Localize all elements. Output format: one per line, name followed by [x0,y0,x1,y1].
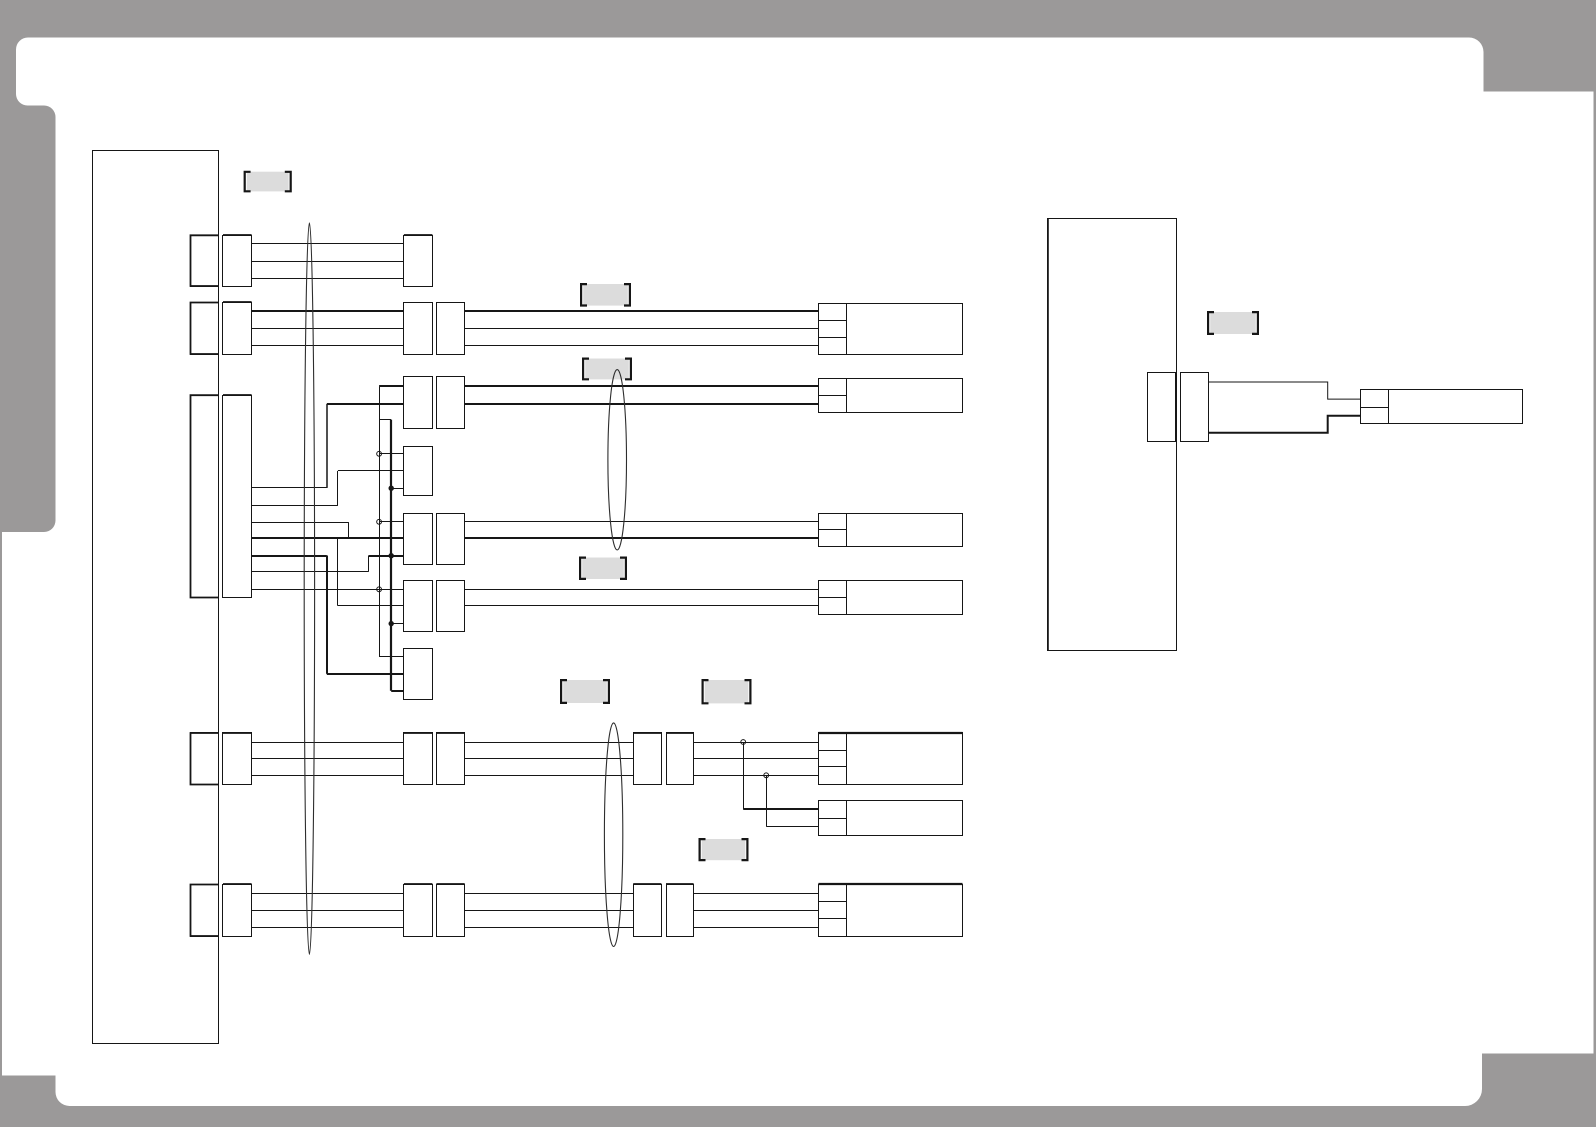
connector C4 (device plug) [819,514,847,547]
wire w5 [252,555,327,557]
connector pair P4 [191,733,219,785]
bus line B2 (thick) [379,419,391,421]
label box L3 (row3 harness) [585,359,629,380]
wire w4 [252,537,404,539]
connector CN-R2 [1181,373,1209,442]
connector pair MB [404,514,433,565]
connector pair P2 [191,303,219,355]
label box (right unit) [1210,312,1256,334]
wire row5 bundle (right) [465,589,819,591]
cable bundle ellipse E3 [604,723,622,947]
connector pair M7 [404,733,433,785]
connector C3 (device plug) [819,379,847,413]
connector pair N7 [634,733,662,785]
connector pair P3 (tall) [191,396,219,598]
connector M1 [404,236,433,287]
connector CN-R1 (at right unit edge) [1148,373,1176,442]
connector pair N8 [634,885,662,937]
plug inner connector [1361,390,1389,424]
wire row2 bundle (left) [252,310,404,312]
connector pair P5 [191,885,219,937]
wire w6 [252,571,369,573]
junction dots on bus B2 [389,486,394,491]
wire row4 bundle (right) [465,521,819,523]
connector C2 (device plug) [819,304,847,355]
label box L1 (top-left) [247,172,289,192]
wire w3 [252,522,349,524]
connector C7 (device plug) [819,733,847,785]
label box L7 (row7 sub) [702,839,746,860]
power unit block (right) [1048,219,1177,651]
cable bundle ellipse E1 [304,223,314,954]
wire row2 bundle (right) [465,310,819,312]
plug body [1389,390,1523,424]
connector pair M8 [404,885,433,937]
main unit block (left) [93,151,219,1044]
cable bundle ellipse E2 [608,370,627,550]
connector C7b (device plug) [819,801,847,836]
connector pair M3 [404,377,433,429]
connector MA [404,447,433,496]
wire w7 [252,589,404,591]
wire row8 bundle [252,893,404,895]
connector pair MC [404,581,433,632]
label box L4 (row5 harness) [582,558,624,580]
junction circles on bus B1 [377,451,382,456]
wire row7 sub-branch 1 [743,742,745,809]
bus branch VX5 [337,538,339,606]
wire row3 feed (from bus) [379,385,404,387]
label box L5 (row7 left) [563,680,607,703]
connector pair M2 [404,303,433,355]
connector pair P1 [191,236,219,287]
wire row7 sub-branch 2 [766,775,768,826]
connector C8 (device plug) [819,885,847,937]
wire row3 bundle (right) [465,385,819,387]
label box L2 (row2 harness) [583,284,628,306]
wire w1 [252,487,327,489]
bus line B1 (thin) [379,387,381,658]
label box L6 (row7 right) [705,680,749,703]
connector MD [404,649,433,700]
wire row7 bundle [252,742,404,744]
connector C5 (device plug) [819,581,847,615]
wire row1 bundle [252,243,404,245]
branch wires into boxes [379,453,404,455]
cord overmold body [1208,382,1360,399]
wire w2 [252,505,338,507]
